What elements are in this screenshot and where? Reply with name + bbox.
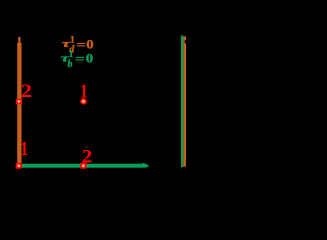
svg-text:=: = [76, 39, 86, 52]
right double stalk: orange part [183, 36, 186, 166]
svg-text:0: 0 [86, 52, 94, 66]
right double stalk: green part [181, 36, 183, 168]
free point (value 1) [80, 98, 87, 105]
svg-text:1: 1 [80, 80, 88, 102]
left orange stalk (vertical line) [17, 37, 21, 166]
svg-text:2: 2 [21, 81, 32, 102]
svg-text:=: = [75, 53, 85, 66]
point at bottom-left junction (value 1) [16, 163, 22, 169]
svg-text:0: 0 [86, 38, 94, 52]
svg-text:b: b [68, 59, 73, 70]
formula tau^1_d = 0 (orange) [62, 35, 94, 55]
svg-text:1: 1 [20, 137, 28, 159]
point on green baseline (value 2) [80, 163, 86, 169]
point on left stalk (value 2) [16, 99, 22, 105]
green baseline (horizontal line) [16, 163, 149, 168]
formula tau^1_b = 0 (green) [61, 50, 94, 70]
svg-text:2: 2 [82, 147, 93, 167]
